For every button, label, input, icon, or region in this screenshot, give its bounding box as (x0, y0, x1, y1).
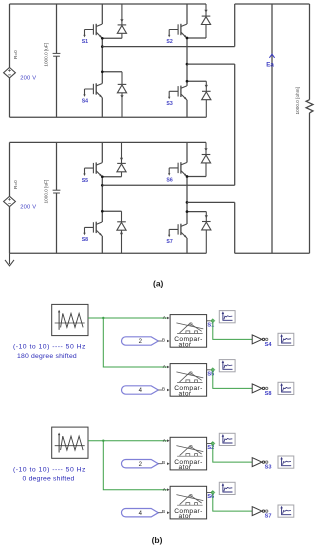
wire bridge2 leg1 mid segment (101, 177, 103, 222)
signal wire comparator output to inverter S7 (213, 494, 252, 511)
svg-text:S7: S7 (166, 239, 172, 245)
signal node S2 output (210, 441, 215, 446)
svg-text:S6: S6 (166, 178, 172, 184)
signal wire branch down to second comparator (103, 441, 167, 490)
transistor S2 (168, 24, 187, 38)
signal wire source to comparator A (88, 317, 167, 319)
wire S6 emitter to D6 (187, 176, 206, 178)
node D4 tee junction (101, 70, 104, 73)
inverter inverter for S3 (252, 458, 268, 467)
node S1 emitter junction (101, 37, 104, 40)
svg-text:ator: ator (179, 513, 192, 520)
diode D5 (117, 142, 126, 176)
wire bridge2 leg1 emitter S8 (101, 236, 103, 253)
svg-text:B: B (162, 386, 165, 392)
svg-text:ator: ator (179, 464, 192, 471)
scope S8 (278, 382, 294, 394)
transistor S1 (83, 24, 102, 38)
svg-text:ator: ator (179, 341, 192, 348)
wire S2 emitter to D2 (187, 37, 206, 39)
node bridge1 output B junction (186, 63, 189, 66)
svg-text:R=0: R=0 (13, 50, 18, 59)
signal wire comparator output to inverter S3 (213, 445, 252, 462)
scope S3 (278, 456, 294, 468)
svg-text:S3: S3 (265, 465, 272, 471)
wire bridge1 output B (187, 63, 235, 65)
wire S5 emitter to D5 (102, 176, 121, 178)
triangle wave generator wave source (52, 427, 88, 458)
svg-text:B: B (162, 337, 165, 343)
svg-text:ator: ator (179, 390, 192, 397)
node S2 emitter junction (186, 37, 189, 40)
scope S5 (219, 360, 235, 372)
diode D1 (117, 4, 126, 38)
svg-text:(b): (b) (152, 535, 163, 545)
wire series link vertical lower (234, 202, 236, 253)
svg-text:B: B (162, 509, 165, 515)
svg-text:180 degree shifted: 180 degree shifted (17, 353, 77, 360)
wire D4 tee wire (102, 71, 122, 73)
wire bridge1 leg1 mid segment (101, 38, 103, 83)
comparator block S2 generator (170, 437, 207, 470)
constant block value 2 for S1 (121, 337, 162, 345)
node S6 emitter junction (186, 175, 189, 178)
node bridge2 output junction (186, 201, 189, 204)
wire bridge1 top rail (10, 3, 207, 5)
comparator block S1 generator (170, 315, 207, 348)
svg-text:1000.0 [uF]: 1000.0 [uF] (44, 180, 49, 204)
wire D7 tee wire (187, 211, 206, 213)
svg-text:200 V: 200 V (20, 204, 36, 210)
transistor S4 (83, 83, 102, 97)
constant block value 4 for S5 (121, 386, 162, 394)
svg-text:S8: S8 (265, 391, 272, 397)
wire bridge2 leg1 collector S5 (101, 142, 103, 162)
voltage source E2 (4, 196, 16, 206)
node S5 emitter junction (101, 175, 104, 178)
wire bridge2 left rail upper (9, 142, 11, 196)
svg-text:1000.0 [ohm]: 1000.0 [ohm] (295, 87, 300, 114)
comparator block S5 generator (170, 364, 207, 397)
svg-text:Ea: Ea (266, 61, 274, 68)
svg-text:(-10 to 10) ---- 50 Hz: (-10 to 10) ---- 50 Hz (13, 344, 86, 351)
svg-text:S1: S1 (82, 39, 88, 45)
wire bridge2 leg2 emitter S7 (186, 238, 188, 253)
transistor S7 (168, 224, 187, 238)
scope S7 (278, 505, 294, 517)
wire bridge1 leg2 mid segment (186, 38, 188, 86)
junction source wire (102, 317, 104, 319)
wire bridge2 left rail lower (9, 207, 11, 254)
inverter inverter for S7 (252, 507, 268, 516)
signal wire source to comparator A (88, 440, 167, 442)
scope S2 (219, 433, 235, 445)
wire load bottom rail (235, 252, 310, 254)
node D8 tee junction (101, 210, 104, 213)
transistor S8 (83, 222, 102, 236)
wire series link vertical upper (234, 4, 236, 47)
triangle wave generator wave source (52, 304, 88, 335)
svg-text:S7: S7 (265, 514, 272, 520)
scope S6 (219, 482, 235, 494)
svg-text:S2: S2 (166, 39, 172, 45)
ground (5, 253, 14, 265)
scope S1 (219, 311, 235, 323)
wire Ea measurement line (271, 4, 273, 253)
voltmeter Ea (266, 54, 274, 68)
node bridge2 leg1 midpoint junction (101, 184, 104, 187)
comparator block S6 generator (170, 486, 207, 519)
svg-text:S4: S4 (82, 99, 88, 105)
svg-text:0 degree shifted: 0 degree shifted (23, 476, 75, 483)
transistor S5 (83, 162, 102, 176)
diode D8 (117, 211, 126, 253)
constant block value 4 for S6 (121, 509, 162, 517)
diode D3 (202, 81, 211, 117)
constant block value 2 for S2 (122, 460, 163, 468)
signal node S5 output (210, 367, 215, 372)
signal wire comparator output to inverter S4 (213, 322, 252, 339)
junction source wire (102, 440, 104, 442)
signal node S1 output (210, 318, 215, 323)
node D7 tee junction (186, 210, 189, 213)
wire D8 tee wire (102, 210, 121, 212)
wire D3 tee wire (187, 80, 206, 82)
wire bridge1 leg2 emitter S3 (186, 100, 188, 117)
wire series link vertical middle (234, 64, 236, 185)
signal wire branch down to second comparator (103, 318, 167, 367)
inverter inverter for S8 (252, 384, 268, 393)
wire bridge2 leg2 mid segment (186, 177, 188, 225)
wire bridge2 bottom rail (10, 252, 207, 254)
svg-text:S3: S3 (166, 101, 172, 107)
wire bridge1 leg1 collector S1 (101, 4, 103, 24)
wire bridge2 top rail (10, 141, 207, 143)
capacitor C2 (53, 142, 61, 253)
voltage source E1 (4, 68, 16, 78)
signal wire comparator output to inverter S8 (213, 371, 252, 388)
wire bridge2 leg2 collector S6 (186, 142, 188, 162)
svg-text:S4: S4 (265, 342, 273, 348)
diode D4 (117, 72, 126, 117)
wire bridge1 left rail lower (9, 78, 11, 117)
scope S4 (278, 333, 294, 345)
wire bridge1 leg1 emitter S4 (101, 98, 103, 118)
diode D7 (202, 212, 211, 254)
transistor S6 (168, 162, 187, 176)
capacitor C1 (53, 4, 61, 117)
signal node S6 output (210, 490, 215, 495)
wire load top rail (235, 3, 310, 5)
wire S1 emitter to D1 (102, 37, 122, 39)
diode D6 (201, 142, 210, 176)
wire bridge2 output B (187, 201, 235, 203)
svg-text:200 V: 200 V (20, 76, 36, 82)
wire bridge1 output A (102, 46, 234, 48)
wire bridge1 bottom rail (10, 116, 207, 118)
svg-text:1000.0 [uF]: 1000.0 [uF] (44, 43, 49, 67)
wire bridge2 input wire (102, 184, 234, 186)
wire bridge1 left rail upper (9, 4, 11, 68)
svg-text:B: B (162, 460, 165, 466)
svg-text:(a): (a) (153, 279, 164, 289)
inverter inverter for S4 (252, 335, 268, 344)
wire load resistor wire lower (309, 113, 311, 253)
diode D2 (201, 4, 210, 38)
svg-text:R=0: R=0 (13, 180, 18, 189)
wire load resistor wire upper (309, 4, 311, 100)
wire bridge1 leg2 collector S2 (186, 4, 188, 24)
svg-text:S5: S5 (82, 178, 88, 184)
node leg1 midpoint junction (101, 45, 104, 48)
resistor R load 1000 ohm (306, 100, 313, 113)
svg-text:S8: S8 (82, 237, 88, 243)
node D3 tee junction (186, 80, 189, 83)
transistor S3 (168, 86, 187, 100)
svg-text:(-10 to 10) ---- 50 Hz: (-10 to 10) ---- 50 Hz (13, 466, 86, 473)
